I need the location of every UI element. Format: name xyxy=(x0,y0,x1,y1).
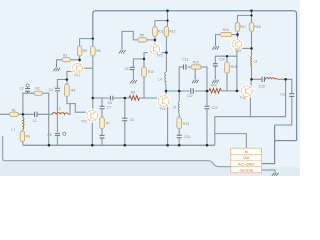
capacitor C10 xyxy=(177,135,191,139)
wire: right border to AC+GND row xyxy=(262,125,297,164)
wire: TV6 collector to L3 node xyxy=(250,79,252,86)
wire: output drop x285.6 and y117 row xyxy=(215,79,286,145)
svg-text:C13: C13 xyxy=(212,106,218,110)
transistor TV5 xyxy=(231,38,244,54)
transistor TV2 xyxy=(81,108,100,123)
resistor R3 xyxy=(62,54,71,62)
svg-text:C8: C8 xyxy=(130,118,134,122)
svg-text:R5: R5 xyxy=(83,49,87,53)
svg-text:C2: C2 xyxy=(20,87,24,91)
svg-text:R10: R10 xyxy=(148,70,154,74)
svg-text:C11: C11 xyxy=(182,57,188,61)
svg-text:AC+GND: AC+GND xyxy=(238,162,254,166)
svg-text:TV5: TV5 xyxy=(235,49,241,53)
capacitor C4 (shunt on x57.4) xyxy=(49,88,60,92)
svg-text:C16: C16 xyxy=(280,93,286,97)
capacitor C16 xyxy=(280,93,294,97)
wire: x207 drop C13 to bus xyxy=(206,91,208,145)
svg-text:C9: C9 xyxy=(124,67,128,71)
transistor TV1 xyxy=(71,61,85,77)
wire: R11 bottom to TV3 base xyxy=(154,37,156,45)
inductor L5 (vertical on x179) xyxy=(173,102,180,113)
resistor R9 xyxy=(137,33,147,42)
resistor R4 (TV1 emitter) xyxy=(65,84,76,97)
svg-text:R14: R14 xyxy=(211,83,217,87)
wire: R3 to ground xyxy=(57,60,63,64)
svg-text:R3: R3 xyxy=(63,54,67,58)
wire: R6 drop to TV2 collector xyxy=(92,41,94,110)
capacitor C13 xyxy=(205,106,218,110)
capacitor C1 (series) xyxy=(33,112,37,123)
wire: G6 stub under R15 xyxy=(194,69,196,76)
svg-text:L4: L4 xyxy=(158,77,162,81)
wire: L4 bottom to node y91 xyxy=(165,84,167,96)
svg-text:R18: R18 xyxy=(254,25,260,29)
wire: R18 bottom to TV5 collector / L3 xyxy=(251,32,253,80)
svg-text:R15: R15 xyxy=(193,61,199,65)
svg-text:L5: L5 xyxy=(173,106,177,110)
svg-text:C4: C4 xyxy=(49,88,53,92)
svg-text:R7: R7 xyxy=(106,122,110,126)
wire: TV2 collector node row y98 xyxy=(93,97,159,99)
wire: R16 left to ground G4 xyxy=(216,35,221,43)
inductor L1 xyxy=(11,117,24,131)
svg-text:C10: C10 xyxy=(184,135,190,139)
ground G3 xyxy=(130,76,137,83)
wire: General row to ground G7 xyxy=(262,170,275,171)
transistor TV6 xyxy=(239,84,254,100)
resistor R5 xyxy=(77,46,87,57)
wire: L5 R13 C10 drop to bus xyxy=(178,91,180,145)
inductor L2 (horizontal) xyxy=(52,107,68,115)
resistor R12 xyxy=(164,26,176,37)
wire: R16 right to TV5 base node xyxy=(232,34,238,36)
svg-text:C6: C6 xyxy=(108,101,112,105)
wire: input row R1 C1 L2 xyxy=(0,104,87,115)
svg-text:R17: R17 xyxy=(240,25,246,29)
resistor R14 (zigzag) xyxy=(209,83,221,93)
svg-text:General: General xyxy=(239,168,253,172)
svg-text:TV2: TV2 xyxy=(81,119,87,123)
resistor R17 xyxy=(235,22,246,32)
transistor TV4 xyxy=(156,94,171,111)
wire: TV3 collector stub xyxy=(162,52,167,54)
wire: R3 to TV1 base node xyxy=(71,56,80,64)
ground G5 xyxy=(212,76,219,83)
ground G2 xyxy=(119,46,126,53)
resistor R11 xyxy=(153,26,164,37)
resistor R1 xyxy=(9,108,19,116)
wire: R11 R12 feed from rail xyxy=(155,11,168,27)
svg-text:R8: R8 xyxy=(131,91,135,95)
resistor R16 xyxy=(220,28,232,37)
wire: TV5 emitter branch to C14 and ground xyxy=(215,56,237,76)
svg-text:C14: C14 xyxy=(219,57,225,61)
inductor L6 (horizontal output) xyxy=(266,78,278,80)
wire: R5 branch from rail xyxy=(80,39,93,46)
wire: ground bus xyxy=(23,144,215,146)
wire: R17 R18 feed from rail xyxy=(238,11,252,23)
wire: TV2 emitter to bus xyxy=(91,121,93,145)
wire: output node row C15 L4h xyxy=(252,79,292,125)
wire: C7 R7 C8b chain xyxy=(101,98,103,145)
svg-text:R9: R9 xyxy=(140,33,144,37)
svg-text:In: In xyxy=(245,150,248,154)
page bottom edge xyxy=(3,136,262,167)
wire: TV5 collector stub xyxy=(241,47,251,49)
wire: R19 bottom join xyxy=(226,56,228,91)
wire: C11 R15 branch xyxy=(179,67,207,91)
svg-text:Out: Out xyxy=(243,156,250,160)
capacitor C2 with open terminal xyxy=(20,84,31,93)
svg-text:C1: C1 xyxy=(33,119,37,123)
wire: TV1 collector stub xyxy=(82,67,93,69)
svg-text:R1: R1 xyxy=(12,108,16,112)
svg-text:R2: R2 xyxy=(35,86,39,90)
wire: R10 line to y98 xyxy=(143,59,145,98)
resistor R19 xyxy=(225,62,237,74)
svg-text:L2: L2 xyxy=(57,107,61,111)
resistor R7 xyxy=(100,117,110,129)
wire: route to table In xyxy=(215,134,247,149)
svg-text:R12: R12 xyxy=(169,29,175,33)
transistor TV3 xyxy=(148,42,163,57)
capacitor C8 (x125 branch) xyxy=(122,118,134,122)
wire: TV6 emitter to y117 row xyxy=(249,97,251,117)
svg-text:TV1: TV1 xyxy=(74,74,80,78)
capacitor C14 xyxy=(213,57,225,66)
svg-text:TV6: TV6 xyxy=(240,96,246,100)
capacitor C5 with open terminal xyxy=(47,132,65,137)
off-page area below page edge xyxy=(0,161,300,176)
resistor R2 xyxy=(34,86,43,95)
inductor L4 (vertical) xyxy=(158,72,166,84)
capacitor C6 (series y98) xyxy=(108,96,113,105)
svg-text:L1: L1 xyxy=(11,128,15,132)
ground G1 xyxy=(53,64,60,71)
wire: ground G2 to R9 xyxy=(122,31,155,46)
inductor L3 (vertical) xyxy=(251,56,258,66)
capacitor C11 (series in branch) xyxy=(182,57,188,69)
capacitor C8b (bottom of R7 chain) xyxy=(100,135,105,138)
svg-text:R19: R19 xyxy=(231,65,237,69)
ground G4 xyxy=(212,42,219,49)
svg-text:R6: R6 xyxy=(96,49,100,53)
svg-text:R11: R11 xyxy=(158,29,164,33)
ground G6 xyxy=(192,76,199,83)
ground G7 (table General) xyxy=(272,171,279,176)
wire: R12 bottom to TV3 collector node xyxy=(165,37,167,73)
connector table xyxy=(231,148,262,173)
wire: top supply rail from corner to right edge xyxy=(93,11,297,141)
svg-text:L3: L3 xyxy=(254,60,258,64)
svg-text:C15: C15 xyxy=(259,84,265,88)
svg-text:TV4: TV4 xyxy=(159,107,165,111)
resistor R18 xyxy=(249,22,260,32)
capacitor C9 xyxy=(124,67,134,71)
svg-text:R13: R13 xyxy=(183,122,189,126)
wire: R4 bottom to TV2 base path xyxy=(67,97,70,104)
resistor R13 xyxy=(177,117,189,129)
wire: TV1 emitter to R4 and C4 branch xyxy=(57,71,73,145)
wire: node A up to C2/R2 row xyxy=(23,93,49,145)
wire: R17 bottom to TV5 base xyxy=(237,32,239,40)
canvas background xyxy=(0,0,300,176)
wire: node A down L1 to R20 xyxy=(22,114,24,145)
svg-text:C7: C7 xyxy=(107,106,111,110)
wire: node y91 row to TV6 base xyxy=(166,90,241,92)
svg-text:C5: C5 xyxy=(47,133,51,137)
svg-text:R16: R16 xyxy=(223,28,229,32)
resistor R15 xyxy=(191,61,202,70)
svg-text:R4: R4 xyxy=(26,135,30,139)
resistor R10 xyxy=(142,67,154,78)
wire: TV3 emitter to C9/R10 node xyxy=(133,53,147,77)
capacitor C15 (series y79) xyxy=(259,77,265,89)
resistor R6 xyxy=(91,46,101,57)
resistor R8 (zigzag) xyxy=(129,91,140,100)
capacitor C12 (series y91) xyxy=(187,88,194,98)
wire: C8 branch to bus xyxy=(124,98,126,145)
svg-text:R4: R4 xyxy=(71,88,75,92)
capacitor C7 xyxy=(100,106,112,110)
wire: TV4 emitter to bus xyxy=(167,105,169,145)
resistor R20 xyxy=(20,131,30,142)
wire: TV5 emitter down to TV6 base row xyxy=(236,49,238,91)
svg-text:C12: C12 xyxy=(187,94,193,98)
svg-text:TV3: TV3 xyxy=(156,54,162,58)
